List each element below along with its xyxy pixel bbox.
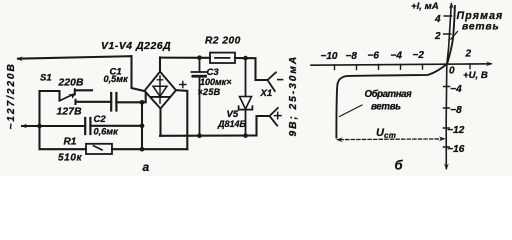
- leader line forward: [451, 32, 458, 40]
- svg-text:V1-V4 Д226Д: V1-V4 Д226Д: [101, 41, 171, 52]
- svg-text:−6: −6: [368, 51, 380, 62]
- svg-text:4: 4: [434, 14, 441, 25]
- svg-text:−12: −12: [447, 125, 464, 136]
- ticks Y: [443, 16, 451, 147]
- node: junction C3 bottom: [197, 133, 202, 138]
- wire: junction down to bottom rail: [40, 126, 87, 149]
- svg-text:ветвь: ветвь: [462, 22, 499, 33]
- wire: minus rail: [160, 134, 257, 136]
- wire: junction to C2 left: [40, 125, 86, 127]
- capacitor C2: [85, 118, 90, 134]
- svg-text:~127/220В: ~127/220В: [6, 62, 17, 129]
- wire: R2 right to X1 corner: [235, 57, 256, 59]
- rectifier bridge V1-V4 diamond: [145, 72, 177, 109]
- wire: bridge top vertex riser to + rail: [159, 57, 161, 71]
- minus polarity mark: [278, 79, 283, 81]
- svg-text:220В: 220В: [58, 78, 84, 89]
- node: junction V5 top: [243, 56, 248, 61]
- wire: C1 right to bridge: [116, 93, 145, 103]
- axis Y: [446, 4, 451, 169]
- wire: C2 right to vertical: [90, 125, 142, 127]
- curve forward branch: [447, 6, 455, 64]
- capacitor C1: [111, 93, 116, 111]
- rectifier bridge inner diode: [159, 76, 161, 103]
- svg-text:−4: −4: [391, 50, 403, 61]
- svg-text:127В: 127В: [57, 107, 83, 118]
- capacitor C3 leads: [199, 58, 201, 136]
- wire: mains bottom wire to junction: [22, 125, 40, 127]
- svg-text:−4: −4: [450, 84, 462, 95]
- svg-text:0,5мк: 0,5мк: [104, 74, 130, 84]
- svg-text:−2: −2: [413, 50, 425, 61]
- switch S1 blade: [60, 95, 73, 101]
- node: junction C2 right: [140, 123, 145, 128]
- connector X1 lower contact: [257, 116, 270, 136]
- ticks X negative: [335, 64, 471, 70]
- node: junction C1 wire / discharge vertical: [140, 100, 145, 105]
- plus polarity mark C3: [180, 82, 186, 88]
- wire: bridge bottom vertex drop: [159, 109, 161, 136]
- svg-text:9В; 25-30мА: 9В; 25-30мА: [288, 55, 299, 137]
- leader line reverse: [340, 105, 363, 117]
- plus polarity mark X1: [275, 112, 282, 118]
- node: mains terminal bottom arrow: [23, 125, 26, 127]
- svg-text:ветвь: ветвь: [371, 102, 401, 113]
- svg-text:R1: R1: [64, 136, 77, 147]
- svg-text:2: 2: [465, 49, 472, 60]
- capacitor C3 electrolytic plates: [192, 71, 208, 73]
- svg-text:+U, В: +U, В: [463, 70, 488, 81]
- svg-text:2: 2: [434, 31, 441, 42]
- svg-text:−16: −16: [447, 144, 464, 155]
- resistor R2: [210, 53, 235, 63]
- svg-text:Д814Б: Д814Б: [217, 119, 247, 129]
- connector X1 upper contact: [256, 58, 268, 80]
- svg-text:б: б: [395, 158, 404, 173]
- svg-text:Обратная: Обратная: [365, 89, 413, 100]
- svg-text:Прямая: Прямая: [457, 10, 504, 22]
- svg-text:Uст: Uст: [376, 127, 396, 140]
- zener diode V5: [245, 58, 247, 96]
- wire: vertical C1/C2 right common: [141, 102, 143, 149]
- dimension line Ust: [340, 138, 442, 141]
- svg-text:100мк×: 100мк×: [200, 77, 232, 87]
- svg-text:−8: −8: [346, 51, 358, 62]
- svg-text:0,6мк: 0,6мк: [94, 127, 120, 137]
- wire: top output rail to R2: [160, 57, 210, 59]
- wire: bridge right vertex down: [176, 90, 187, 149]
- switch S1 220V contact stub: [75, 89, 92, 94]
- wire: bottom rail right of R1: [112, 148, 187, 150]
- resistor R1: [86, 144, 112, 154]
- node: junction bottom-left: [37, 124, 42, 129]
- node: junction bottom rail: [140, 147, 145, 152]
- wire: mains top wire to corner: [18, 56, 132, 59]
- svg-text:а: а: [143, 160, 150, 174]
- wire: junction up to switch S1 feed: [40, 91, 60, 126]
- svg-text:С2: С2: [94, 114, 107, 125]
- svg-text:−8: −8: [450, 105, 462, 116]
- switch S1 127V contact line to C1: [76, 100, 112, 104]
- node: mains terminal top arrow: [18, 58, 22, 60]
- axis X: [311, 64, 491, 65]
- svg-text:×25В: ×25В: [198, 87, 221, 97]
- svg-text:0: 0: [449, 66, 455, 77]
- node: junction V5 bottom: [243, 133, 248, 138]
- wire: corner down to bridge left vertex: [132, 56, 145, 91]
- svg-text:510к: 510к: [58, 153, 82, 164]
- curve reverse branch: [336, 64, 446, 137]
- svg-text:R2 200: R2 200: [205, 35, 241, 46]
- svg-text:+I, мА: +I, мА: [411, 1, 439, 12]
- svg-text:−10: −10: [321, 51, 338, 62]
- node: junction C3 top: [197, 55, 202, 60]
- svg-text:S1: S1: [40, 73, 52, 84]
- svg-text:X1: X1: [260, 88, 273, 99]
